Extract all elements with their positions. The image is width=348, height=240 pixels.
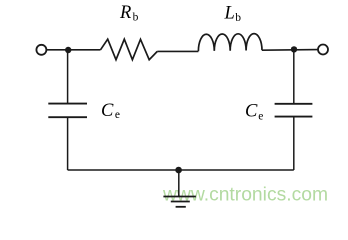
node G junction dot ground <box>175 167 182 174</box>
wire left vertical upper <box>67 50 69 103</box>
svg-text:L: L <box>224 4 235 24</box>
label Rb <box>119 3 139 24</box>
terminal left <box>36 45 46 55</box>
svg-text:C: C <box>101 101 114 121</box>
svg-text:e: e <box>115 109 120 121</box>
svg-text:R: R <box>119 3 131 23</box>
inductor Lb <box>198 34 262 52</box>
terminal right <box>318 45 328 55</box>
capacitor Ce left <box>48 104 87 118</box>
wire top right lead <box>262 49 318 52</box>
wire bottom rail <box>68 169 294 171</box>
wire top middle <box>157 50 198 52</box>
wire left vertical lower <box>67 117 69 170</box>
wire top left lead <box>46 49 100 51</box>
ground <box>163 197 196 207</box>
watermark www.cntronics.com <box>162 184 328 205</box>
wire right vertical upper <box>293 49 295 103</box>
svg-text:b: b <box>133 11 139 23</box>
wire right vertical lower <box>293 117 295 170</box>
node A junction dot left <box>65 47 71 53</box>
label Ce left <box>101 101 120 121</box>
wire ground stub <box>178 170 180 197</box>
label Ce right <box>245 101 263 122</box>
svg-text:b: b <box>235 12 241 24</box>
resistor Rb <box>101 39 158 60</box>
node B junction dot right <box>291 46 297 52</box>
svg-text:e: e <box>258 111 263 123</box>
svg-text:C: C <box>245 101 258 121</box>
capacitor Ce right <box>275 104 313 117</box>
label Lb <box>224 4 242 24</box>
